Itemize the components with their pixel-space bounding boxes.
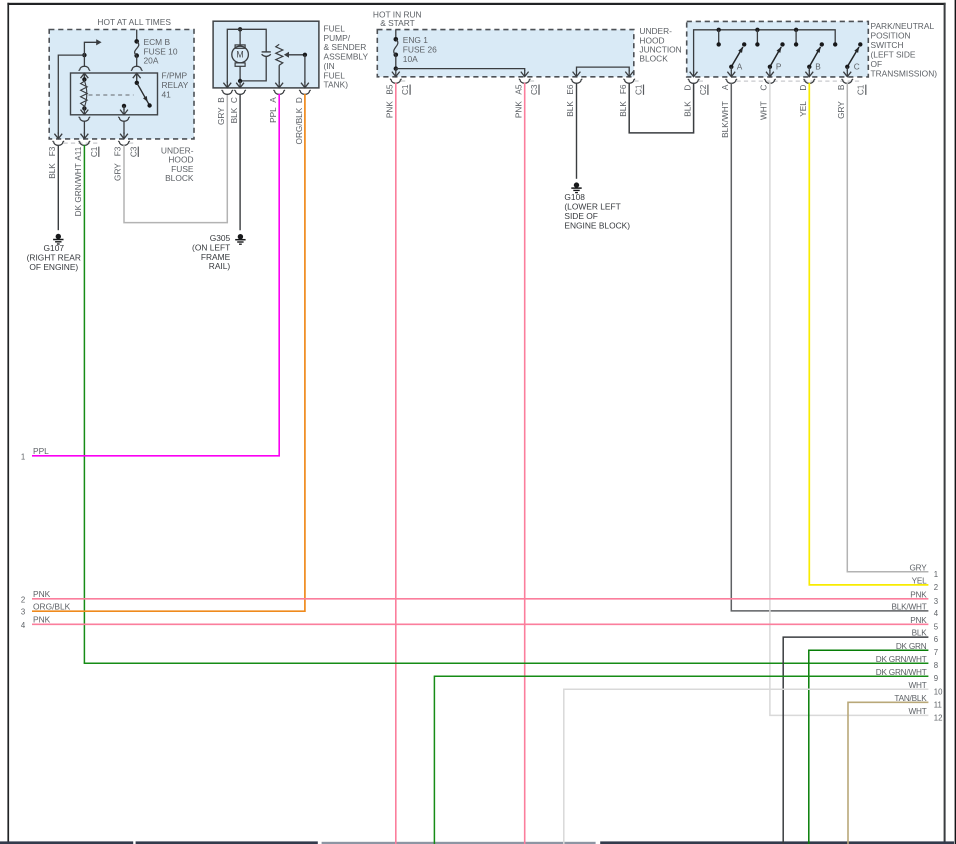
svg-text:BLK: BLK [683, 101, 692, 117]
connector socket C park/neutral [764, 79, 775, 84]
arrow exit A5 [521, 72, 529, 77]
bus node 1 [717, 28, 721, 32]
svg-text:G108: G108 [564, 192, 585, 202]
wire ORG/BLK fuel pump D to terminal 3 [32, 94, 305, 611]
ground G305 [238, 234, 243, 239]
connector socket fuel pump C [235, 90, 246, 95]
arrow exit F6 [625, 72, 633, 77]
wire WHT C to terminal 12 [770, 83, 929, 716]
wire motor low to exit C [239, 81, 241, 83]
relay box F/PMP RELAY 41 [71, 73, 158, 115]
svg-text:GRY: GRY [910, 563, 928, 572]
wire TAN/BLK terminal 11 from bottom [848, 702, 928, 844]
connector socket below relay (coil) [79, 117, 90, 122]
off-page arrowhead [96, 39, 101, 45]
arrow exit A [730, 67, 732, 71]
svg-text:PNK: PNK [514, 101, 523, 118]
arrow exit D park/neutral [690, 72, 698, 77]
arrow exit E6 [573, 72, 581, 77]
bottom bar segment 3 (gray) [322, 842, 596, 844]
svg-text:HOT AT ALL TIMES: HOT AT ALL TIMES [97, 17, 171, 27]
relay switch arm end contact [147, 103, 151, 107]
switch B pivot contact [807, 65, 811, 69]
bottom bar segment 1 [0, 841, 133, 844]
svg-text:PNK: PNK [910, 590, 927, 599]
frame left border [7, 3, 9, 842]
svg-text:BLK: BLK [912, 629, 928, 638]
svg-text:A: A [721, 84, 730, 90]
switch P arm [770, 47, 781, 67]
arrow fuel pump exit x=240.1 [236, 83, 244, 88]
svg-text:WHT: WHT [760, 101, 769, 120]
node eng fuse splice [394, 66, 398, 70]
switch C pivot contact [845, 65, 849, 69]
connector socket fuel pump A [274, 90, 285, 95]
underhood fuse block box [49, 30, 194, 139]
bus contact 2 [756, 30, 758, 45]
fuse ENG 1 FUSE 26 10A [394, 37, 399, 42]
bracket wire E6-F6 [577, 67, 630, 71]
switch bus wire [694, 30, 836, 73]
wire BLK to G107 [57, 145, 59, 230]
svg-text:A11: A11 [74, 146, 83, 160]
svg-text:BLK: BLK [619, 101, 628, 117]
svg-text:WHT: WHT [908, 707, 926, 716]
wire PNK row terminal 2-3 [32, 598, 928, 600]
svg-text:OF: OF [871, 59, 883, 69]
relay coil [82, 77, 86, 81]
svg-text:DK GRN: DK GRN [896, 642, 927, 651]
svg-text:DK GRN/WHT: DK GRN/WHT [876, 655, 927, 664]
svg-text:BLK: BLK [48, 163, 57, 179]
svg-text:2: 2 [934, 583, 938, 592]
relay switch output contact [122, 104, 126, 108]
svg-text:4: 4 [934, 609, 939, 618]
svg-text:5: 5 [934, 622, 939, 631]
switch B arm [809, 47, 820, 67]
switch C floating contact [858, 42, 862, 46]
connector socket F3 right [118, 141, 129, 146]
arrow exit C [846, 67, 848, 71]
wire BLK/WHT A to terminal 4 [731, 83, 928, 611]
switch P pivot contact [768, 65, 772, 69]
arrow relay coil low side [83, 108, 85, 110]
wire junction to coil [83, 55, 85, 67]
connector socket D2 park/neutral [804, 79, 815, 84]
wire DK GRN terminal 7 from bottom [809, 650, 929, 844]
arrow into relay coil [81, 73, 89, 78]
bus contact 3 [795, 30, 797, 45]
arrow exit B [808, 67, 810, 71]
svg-text:PNK: PNK [33, 615, 51, 625]
svg-text:ENG 1: ENG 1 [403, 35, 428, 45]
motor M fuel pump [235, 45, 245, 48]
ground G107 [56, 234, 61, 239]
underhood junction block box [377, 30, 634, 77]
wire DK GRN/WHT to terminal 8 [84, 662, 929, 664]
bottom bar segment 4 [600, 841, 954, 844]
svg-text:(LOWER LEFT: (LOWER LEFT [564, 202, 620, 212]
svg-text:G107: G107 [44, 243, 65, 253]
svg-text:GRY B: GRY B [217, 97, 226, 125]
svg-text:B5: B5 [386, 84, 395, 95]
svg-text:C2: C2 [699, 84, 708, 95]
svg-text:BLK/WHT: BLK/WHT [721, 101, 730, 138]
page right edge line [955, 0, 956, 844]
capacitor plates [262, 51, 271, 53]
relay mechanical link (dashed) [89, 94, 134, 96]
fuse F10 ECM B 20A [134, 39, 139, 44]
svg-text:F3: F3 [114, 146, 123, 156]
svg-text:10: 10 [934, 687, 943, 696]
fuel pump & sender assembly box [213, 21, 319, 88]
wire junction to capacitor [240, 29, 266, 52]
wire BLK from E6 to G108 [576, 83, 578, 179]
svg-text:WHT: WHT [908, 681, 926, 690]
switch A pivot contact [729, 65, 733, 69]
svg-text:B: B [815, 62, 821, 71]
svg-text:POSITION: POSITION [871, 30, 911, 40]
svg-text:ORG/BLK: ORG/BLK [33, 602, 71, 612]
wire relay output to block edge [123, 121, 125, 134]
wire WHT terminal 10 from bottom [564, 689, 929, 844]
svg-text:OF ENGINE): OF ENGINE) [29, 262, 78, 272]
svg-text:E6: E6 [566, 84, 575, 95]
connector socket fuel pump B [222, 90, 233, 95]
svg-text:PNK: PNK [910, 616, 927, 625]
bus end contact [833, 42, 837, 46]
svg-text:BLK/WHT: BLK/WHT [892, 603, 927, 612]
svg-text:YEL: YEL [799, 101, 808, 117]
arrow fuel pump exit x=227.3 [223, 83, 231, 88]
node motor low junction [238, 79, 242, 83]
wire coil low to block edge [83, 121, 85, 134]
relay switch arm [137, 83, 149, 104]
svg-text:TANK): TANK) [324, 80, 349, 90]
arrow fuse block exit F3 right [120, 134, 128, 139]
connector socket D park/neutral [688, 79, 699, 84]
svg-text:TRANSMISSION): TRANSMISSION) [871, 68, 938, 78]
wire splice to A5 exit [396, 69, 525, 71]
svg-text:41: 41 [162, 90, 172, 100]
node fuel pump top junction [238, 27, 242, 31]
connector strip dash C1 at B5 [401, 80, 408, 82]
bottom bar segment 2 [136, 841, 318, 844]
bus contact 1 [718, 30, 720, 45]
svg-text:DK GRN/WHT: DK GRN/WHT [876, 668, 927, 677]
connector socket relay switch input [131, 66, 142, 71]
wire YEL D to terminal 2 [809, 83, 928, 585]
wire eng fuse feed [395, 30, 397, 40]
ground G108 [574, 182, 579, 187]
svg-text:PPL: PPL [33, 446, 49, 456]
arrow fuse block exit A11 [81, 134, 89, 139]
switch C arm [847, 47, 859, 67]
svg-text:& START: & START [380, 18, 415, 28]
wire motor low [239, 66, 241, 81]
node coil feed junction [82, 53, 86, 57]
wire to off-page arrow [84, 42, 96, 55]
switch P floating contact [780, 42, 784, 46]
svg-text:D: D [683, 85, 692, 91]
svg-text:C1: C1 [401, 84, 410, 95]
svg-text:F6: F6 [619, 84, 628, 94]
svg-text:2: 2 [21, 595, 25, 604]
svg-text:C3: C3 [129, 146, 138, 157]
svg-text:F/PMP: F/PMP [162, 71, 188, 81]
svg-text:PNK: PNK [386, 101, 395, 118]
connector socket A11 [79, 141, 90, 146]
relay switch pivot [135, 81, 139, 85]
svg-text:10A: 10A [403, 54, 418, 64]
node wiper junction [303, 53, 307, 57]
svg-text:ORG/BLK D: ORG/BLK D [295, 97, 304, 144]
arrow fuel pump exit x=304.9 [301, 83, 309, 88]
wire PPL fuel sender to terminal 1 [32, 94, 279, 456]
svg-text:(RIGHT REAR: (RIGHT REAR [27, 253, 81, 263]
connector socket F3 left [53, 141, 64, 146]
svg-text:GRY: GRY [114, 163, 123, 181]
svg-text:GRY: GRY [837, 101, 846, 119]
svg-text:PPL A: PPL A [269, 97, 278, 123]
arrow exit B5 [395, 69, 397, 71]
connector socket A5 [519, 79, 530, 84]
svg-text:DK GRN/WHT: DK GRN/WHT [74, 163, 83, 216]
connector socket relay coil input [79, 66, 90, 71]
wire DK GRN/WHT from A11 down [83, 145, 85, 663]
svg-text:BLOCK: BLOCK [165, 173, 194, 183]
svg-text:8: 8 [934, 661, 938, 670]
svg-text:C3: C3 [530, 84, 539, 95]
connector socket fuel pump D [299, 90, 310, 95]
svg-text:PNK: PNK [33, 589, 51, 599]
svg-text:20A: 20A [144, 56, 159, 66]
wire BLK terminal 6 from bottom [783, 637, 928, 844]
arrow into relay switch [133, 73, 141, 78]
svg-text:SWITCH: SWITCH [871, 40, 904, 50]
svg-text:SIDE OF: SIDE OF [564, 211, 598, 221]
switch A floating contact [742, 42, 746, 46]
connector socket A park/neutral [726, 79, 737, 84]
svg-text:M: M [236, 50, 243, 60]
wire BLK to G305 [239, 94, 241, 230]
svg-text:C: C [854, 62, 860, 71]
svg-text:D: D [799, 85, 808, 91]
sender wiper arrow [287, 54, 305, 56]
arrow fuel pump exit x=279.2 [275, 83, 283, 88]
frame right border [944, 3, 946, 842]
svg-text:C1: C1 [857, 84, 866, 95]
connector socket E6 [571, 79, 582, 84]
svg-text:B: B [837, 84, 846, 90]
frame top border [7, 3, 945, 5]
svg-text:F3: F3 [48, 146, 57, 156]
wire junction to motor [239, 29, 241, 45]
svg-text:3: 3 [934, 597, 938, 606]
switch A arm [731, 47, 743, 67]
arrow relay switch output [123, 106, 125, 110]
svg-text:BLK C: BLK C [230, 97, 239, 123]
svg-text:1: 1 [934, 570, 938, 579]
svg-text:A: A [737, 62, 743, 71]
svg-text:PARK/NEUTRAL: PARK/NEUTRAL [871, 21, 935, 31]
wire PNK from A5 to bottom [524, 83, 526, 844]
sender variable resistor [276, 44, 283, 65]
wire fuse to junction node [395, 55, 397, 69]
wire fuse to relay switch [136, 56, 138, 67]
connector strip dashes C3 [129, 142, 136, 144]
connector strip dash C1 at F6 [634, 80, 641, 82]
connector strip dash C2 [699, 80, 706, 82]
svg-text:FUSE 26: FUSE 26 [403, 44, 437, 54]
bus node 2 [755, 28, 759, 32]
svg-text:BLK: BLK [566, 101, 575, 117]
svg-text:4: 4 [21, 621, 26, 630]
park/neutral position switch box [687, 21, 869, 77]
svg-text:RAIL): RAIL) [209, 261, 231, 271]
wire wiper to exit D [304, 55, 306, 83]
svg-text:RELAY: RELAY [162, 80, 189, 90]
switch B floating contact [820, 42, 824, 46]
svg-text:6: 6 [934, 635, 938, 644]
wire fuse feed [136, 30, 138, 42]
wire junction to left exit B [227, 29, 240, 83]
connector strip dashes C1 [64, 142, 99, 144]
svg-text:11: 11 [934, 700, 942, 709]
wire BLK from F6 to park/neutral D [629, 83, 693, 133]
svg-text:P: P [776, 62, 782, 71]
svg-text:TAN/BLK: TAN/BLK [894, 694, 927, 703]
svg-text:ENGINE BLOCK): ENGINE BLOCK) [564, 221, 630, 231]
wire GRY B to terminal 1 [847, 83, 928, 572]
svg-text:1: 1 [21, 452, 25, 461]
svg-text:C: C [760, 85, 769, 91]
wire PNK row terminal 4-5 [32, 623, 928, 625]
connector socket B5 [390, 79, 401, 84]
arrow exit P [769, 67, 771, 71]
svg-text:(LEFT SIDE: (LEFT SIDE [871, 49, 916, 59]
svg-text:3: 3 [21, 608, 25, 617]
svg-text:7: 7 [934, 648, 938, 657]
connector strip dash C3 at A5 [530, 80, 537, 82]
wire PNK from B5 to bottom [395, 83, 397, 844]
connector socket B park/neutral [842, 79, 853, 84]
wire junction to left drop [58, 55, 84, 134]
svg-text:9: 9 [934, 674, 938, 683]
wire sender to exit A [278, 65, 280, 83]
svg-text:BLOCK: BLOCK [639, 54, 668, 64]
svg-text:A5: A5 [514, 84, 523, 95]
svg-text:C1: C1 [635, 84, 644, 95]
arrow fuse block exit F3 left [54, 134, 62, 139]
wire capacitor to motor low junction [240, 57, 266, 81]
connector strip dash C1 park/neutral [737, 80, 863, 82]
connector socket below relay (switch) [118, 117, 129, 122]
bus node 3 [794, 28, 798, 32]
connector socket F6 [624, 79, 635, 84]
svg-text:12: 12 [934, 713, 943, 722]
svg-text:C1: C1 [90, 146, 99, 157]
svg-text:YEL: YEL [912, 577, 928, 586]
wire DK GRN/WHT terminal 9 from bottom [434, 676, 928, 844]
wire GRY from C3 to fuel pump B [124, 94, 227, 223]
